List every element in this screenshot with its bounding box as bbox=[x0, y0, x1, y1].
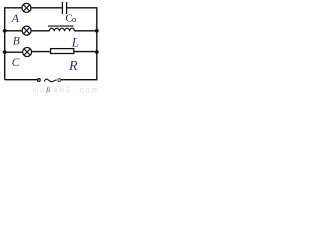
label R bbox=[68, 59, 78, 74]
wire: row3 (resistor to right bus) bbox=[74, 51, 97, 53]
lamp C bbox=[23, 48, 32, 57]
node: right junction row 2 bbox=[95, 29, 99, 33]
svg-text:L: L bbox=[71, 34, 79, 49]
wire: row3 (lamp C to resistor) bbox=[32, 51, 51, 53]
inductor core line bbox=[48, 25, 74, 27]
svg-text:C: C bbox=[12, 57, 20, 69]
label C bbox=[12, 57, 20, 69]
node: left junction row 2 bbox=[3, 29, 7, 33]
svg-text:A: A bbox=[11, 11, 20, 25]
wire: bottom (left bus to AC terminal) bbox=[5, 79, 38, 81]
wire: left bus bbox=[4, 8, 6, 80]
wire: row2 (left bus to lamp B) bbox=[5, 30, 22, 32]
lamp B bbox=[22, 26, 31, 35]
capacitor C0 plates bbox=[62, 2, 66, 14]
node: right junction row 3 bbox=[95, 50, 99, 54]
wire: row2 (inductor to right bus) bbox=[75, 30, 97, 32]
inductor L coil bbox=[49, 28, 74, 31]
lamp A bbox=[22, 3, 31, 12]
svg-text:o: o bbox=[72, 14, 76, 24]
svg-text:en5. com: en5. com bbox=[53, 85, 100, 94]
label B bbox=[13, 36, 20, 48]
wire: right bus bbox=[96, 8, 98, 80]
node: left junction row 3 bbox=[3, 50, 7, 54]
wire: top (capacitor to right bus) bbox=[67, 7, 98, 9]
svg-text:fi: fi bbox=[46, 86, 50, 94]
label C0 bbox=[65, 12, 76, 24]
label A bbox=[11, 11, 20, 25]
wire: top (lamp A to capacitor) bbox=[31, 7, 62, 9]
svg-text:R: R bbox=[68, 59, 78, 74]
AC source terminal right bbox=[58, 79, 61, 82]
resistor R bbox=[51, 49, 74, 54]
AC source terminal left bbox=[37, 79, 40, 82]
AC source tilde bbox=[44, 79, 56, 82]
wire: row3 (left bus to lamp C) bbox=[5, 51, 23, 53]
svg-text:B: B bbox=[13, 36, 20, 48]
wire: row2 (lamp B to inductor) bbox=[31, 30, 49, 32]
label L bbox=[71, 34, 79, 49]
wire: bottom (AC terminal to right bus) bbox=[61, 79, 98, 81]
wire: top (left of lamp A) bbox=[4, 7, 22, 9]
watermark manfen5.com bbox=[33, 85, 101, 94]
